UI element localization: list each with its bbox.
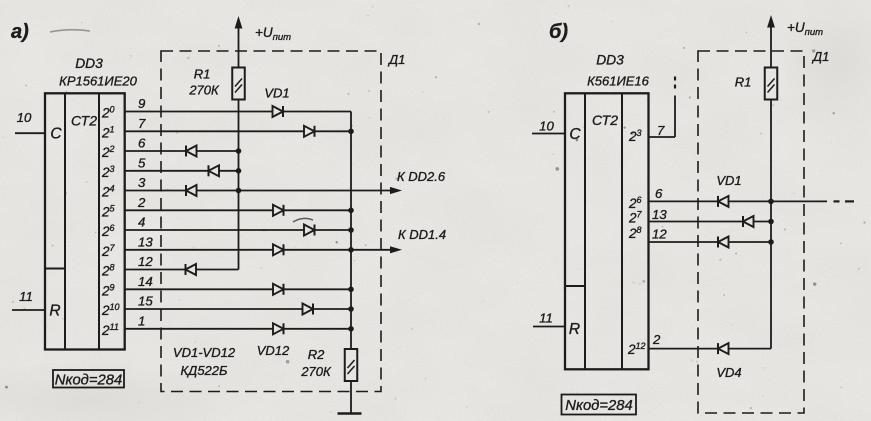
svg-text:R1: R1	[735, 75, 752, 90]
diode VD1 (б)	[718, 196, 729, 207]
pin number 7 (a)	[138, 116, 146, 131]
svg-text:C: C	[569, 126, 581, 143]
smudge near diode VD7	[293, 218, 313, 222]
svg-text:VD1-VD12: VD1-VD12	[173, 345, 236, 360]
diode VD8	[273, 244, 284, 255]
code label Nкод=284 (a)	[53, 370, 124, 389]
wire VD2 to bus (a)	[315, 130, 352, 132]
wire input C pin 10 (a)	[15, 132, 45, 134]
junction bus row pin13 (б)	[768, 219, 774, 225]
svg-text:VD1: VD1	[264, 86, 289, 101]
svg-text:2: 2	[652, 332, 661, 347]
diode VD11	[303, 304, 314, 315]
wire Q0 pin9 to VD1 (a)	[125, 111, 273, 113]
IC DD3 designator (б)	[596, 53, 624, 68]
label Д1 (б)	[811, 49, 829, 64]
label КД522Б	[181, 363, 229, 378]
svg-text:11: 11	[19, 289, 33, 304]
svg-text:б): б)	[549, 21, 568, 43]
junction bus row pin12 (б)	[768, 239, 774, 245]
wire output К DD1.4	[284, 249, 391, 251]
label К DD2.6	[397, 169, 446, 184]
IC DD3 body (a) КР1561ИЕ20 counter	[45, 93, 125, 349]
output label 2^12 (б)	[627, 341, 646, 357]
pin number 13 (a)	[138, 234, 153, 249]
label VD1 (a)	[264, 86, 289, 101]
IC function label СТ2 (a)	[71, 113, 97, 129]
wire Q7 pin13 to VD2 (б)	[649, 221, 744, 223]
output label 2^11 (a)	[101, 322, 119, 338]
svg-text:DD3: DD3	[596, 53, 624, 68]
wire Q3 pin5 to VD4 (a)	[125, 170, 209, 172]
output label 2^0 (a)	[101, 105, 115, 121]
output label 2^1 (a)	[101, 124, 115, 140]
pin number 4 (a)	[138, 215, 145, 230]
wire Q8 pin12 to VD9 (a)	[125, 269, 186, 271]
label R2 (a)	[308, 347, 325, 362]
label a)	[11, 21, 29, 43]
junction bus row pin1 (a)	[348, 326, 354, 332]
pin number 14 (a)	[138, 274, 153, 289]
svg-text:13: 13	[652, 207, 667, 222]
pin number 12 (б)	[652, 227, 667, 242]
ground	[338, 412, 362, 415]
pin number 11 (a)	[19, 289, 33, 304]
wire Q1 pin7 to VD2 (a)	[125, 130, 304, 132]
svg-text:СТ2: СТ2	[592, 112, 618, 128]
diode VD1	[273, 106, 284, 117]
svg-text:14: 14	[138, 274, 153, 289]
wire VD4 to pull-up line (a)	[219, 170, 239, 172]
wire input R pin 11 (б)	[533, 326, 565, 328]
output label 2^4 (a)	[101, 184, 115, 200]
output label 2^5 (a)	[101, 203, 116, 219]
wire VD4 to bus corner (б)	[729, 348, 772, 350]
wire VD6 to bus (a)	[284, 209, 352, 211]
label +Uпит (б)	[787, 20, 823, 38]
wire Q5 pin2 to VD6 (a)	[125, 209, 273, 211]
svg-text:DD3: DD3	[75, 56, 103, 71]
junction bus row pin13 (a)	[348, 247, 354, 253]
pin number 15 (a)	[138, 294, 153, 309]
arrow +Uпит (a)	[235, 16, 243, 29]
arrow К DD1.4	[390, 246, 402, 253]
wire input C pin 10 (б)	[532, 133, 565, 135]
wire Q7 pin13 to VD8 (a)	[125, 249, 273, 251]
wire Q6 pin6 to VD1 (б)	[649, 200, 719, 202]
pin number 6 (б)	[655, 186, 663, 201]
dashed enclosure Д1 (б)	[698, 51, 804, 413]
diode VD6	[273, 205, 284, 216]
label R1 (б)	[735, 75, 752, 90]
svg-text:7: 7	[138, 116, 146, 131]
pin number 11 (б)	[539, 311, 553, 326]
pin R label (б)	[569, 321, 580, 338]
output label 2^3 (б)	[628, 128, 642, 144]
svg-text:4: 4	[138, 215, 145, 230]
arrow +Uпит (б)	[767, 15, 775, 28]
label VD4 (б)	[716, 365, 741, 380]
svg-text:R: R	[49, 303, 60, 320]
pin number 7 (б)	[657, 123, 665, 138]
output label 2^2 (a)	[101, 144, 115, 160]
wire Q10 pin15 to VD11 (a)	[125, 308, 303, 310]
svg-text:3: 3	[138, 175, 146, 190]
svg-text:C: C	[50, 126, 62, 143]
pin number 3 (a)	[138, 175, 146, 190]
svg-text:9: 9	[138, 96, 146, 111]
wire Q12 pin2 to VD4 (б)	[649, 348, 719, 350]
diode VD12	[273, 323, 284, 334]
diode VD3 (б)	[718, 237, 729, 248]
svg-text:СТ2: СТ2	[71, 113, 97, 129]
junction bus row pin4 (a)	[348, 227, 354, 233]
wire Q9 pin14 to VD10 (a)	[125, 288, 273, 290]
wire Q4 pin3 to VD5 (a)	[125, 190, 186, 192]
junction bus row pin2 (a)	[348, 208, 354, 214]
pin C label (б)	[569, 126, 581, 143]
diode VD2 (б)	[743, 216, 754, 227]
diode VD2	[304, 126, 315, 137]
continuation dots above pin7 wire (б)	[674, 77, 676, 89]
wire VD12 to bus (a)	[284, 328, 352, 330]
diode VD3	[186, 146, 197, 157]
svg-text:R1: R1	[194, 67, 211, 82]
wire input R pin 11 (a)	[12, 309, 45, 311]
IC DD3 type К561ИЕ16	[587, 74, 650, 89]
pin number 9 (a)	[138, 96, 146, 111]
junction bus row pin15 (a)	[348, 306, 354, 312]
IC function label СТ2 (б)	[592, 112, 618, 128]
pin number 12 (a)	[138, 254, 153, 269]
junction pull-up row pin6 (a)	[236, 148, 242, 154]
wire R1 to +Uпит (a)	[238, 28, 240, 68]
code label Nкод=284 (б)	[562, 395, 637, 415]
diode VD4	[209, 165, 220, 176]
label Д1 (a)	[387, 52, 405, 67]
wire Q2 pin6 to VD3 (a)	[125, 150, 186, 152]
label К DD1.4	[398, 227, 446, 242]
output label 2^8 (a)	[101, 263, 115, 279]
output label 2^7 (б)	[628, 210, 643, 226]
svg-text:VD12: VD12	[257, 343, 290, 358]
resistor R1 (б)	[765, 68, 778, 100]
IC DD3 type КР1561ИЕ20	[59, 74, 137, 89]
svg-text:2: 2	[137, 195, 146, 210]
pin number 6 (a)	[138, 136, 146, 151]
wire VD11 to bus (a)	[313, 308, 351, 310]
pin R label (a)	[49, 303, 60, 320]
pin number 2 (б)	[652, 332, 661, 347]
svg-text:Д1: Д1	[387, 52, 405, 67]
pin number 13 (б)	[652, 207, 667, 222]
output label 2^8 (б)	[628, 225, 642, 241]
svg-text:12: 12	[138, 254, 153, 269]
output label 2^3 (a)	[101, 164, 115, 180]
svg-text:Nкод=284: Nкод=284	[565, 398, 632, 414]
output label 2^6 (a)	[101, 223, 115, 239]
wire VD3 to bus (б)	[729, 241, 772, 243]
junction bus row pin14 (a)	[348, 287, 354, 293]
pin number 1 (a)	[138, 313, 145, 328]
svg-text:11: 11	[539, 311, 553, 326]
diode VD5	[186, 185, 197, 196]
pin number 10 (б)	[539, 119, 554, 134]
svg-text:R2: R2	[308, 347, 325, 362]
svg-text:270К: 270К	[188, 83, 220, 98]
output label 2^7 (a)	[101, 243, 116, 259]
label VD12 (a)	[257, 343, 290, 358]
junction bus row pin7 (a)	[348, 129, 354, 135]
svg-text:1: 1	[138, 313, 145, 328]
wire VD3 to pull-up line (a)	[197, 150, 239, 152]
pull-up vertical wire from R1 (a)	[238, 100, 240, 270]
svg-text:К DD2.6: К DD2.6	[397, 169, 446, 184]
svg-text:10: 10	[17, 110, 32, 125]
svg-text:КД522Б: КД522Б	[181, 363, 229, 378]
junction pull-up row pin3 (a)	[236, 188, 242, 194]
svg-text:5: 5	[138, 155, 146, 170]
svg-text:7: 7	[657, 123, 665, 138]
wire output К DD2.6	[197, 190, 391, 192]
value 270К R1 (a)	[188, 83, 220, 98]
pin C label (a)	[50, 126, 62, 143]
bus vertical wire from R1 (б)	[770, 99, 772, 349]
diode VD7	[304, 225, 315, 236]
diode VD9	[186, 264, 197, 275]
svg-text:10: 10	[539, 119, 554, 134]
svg-text:6: 6	[138, 136, 146, 151]
wire Q8 pin12 to VD3 (б)	[649, 241, 719, 243]
diode VD4 (б)	[718, 343, 729, 354]
IC DD3 designator (a)	[75, 56, 103, 71]
svg-text:a): a)	[11, 21, 29, 43]
svg-text:6: 6	[655, 186, 663, 201]
value 270К R2 (a)	[300, 364, 332, 379]
label VD1-VD12	[173, 345, 236, 360]
svg-text:12: 12	[652, 227, 667, 242]
junction pull-up row pin5 (a)	[236, 168, 242, 174]
svg-text:R: R	[569, 321, 580, 338]
junction bus row pin6 (б)	[768, 199, 774, 205]
label б)	[549, 21, 568, 43]
wire R2 to ground	[350, 381, 352, 414]
wire Q11 pin1 to VD12 (a)	[125, 328, 273, 330]
svg-text:КР1561ИЕ20: КР1561ИЕ20	[59, 74, 137, 89]
svg-text:270К: 270К	[300, 364, 332, 379]
svg-text:VD4: VD4	[716, 365, 741, 380]
label R1 (a)	[194, 67, 211, 82]
resistor R1 (a) 270К	[232, 68, 245, 100]
wire R1 to +Uпит (б)	[770, 27, 772, 68]
wire VD7 to bus (a)	[315, 229, 352, 231]
smudge streak right of label a)	[50, 30, 90, 32]
label +Uпит (a)	[255, 25, 291, 43]
resistor R2 (a) 270К	[345, 349, 358, 381]
output label 2^10 (a)	[101, 302, 120, 318]
continuation dashes row pin6 (б)	[834, 200, 855, 202]
output label 2^9 (a)	[101, 282, 115, 298]
wire pin7 output (б)	[649, 96, 676, 138]
pin number 10 (a)	[17, 110, 32, 125]
wire VD2 to bus (б)	[754, 221, 772, 223]
svg-text:К DD1.4: К DD1.4	[398, 227, 446, 242]
pin number 5 (a)	[138, 155, 146, 170]
diode VD10	[273, 284, 284, 295]
svg-text:VD1: VD1	[716, 173, 741, 188]
label VD1 (б)	[716, 173, 741, 188]
svg-text:Nкод=284: Nкод=284	[55, 373, 122, 389]
wire Q6 pin4 to VD7 (a)	[125, 229, 304, 231]
output label 2^6 (б)	[628, 195, 642, 211]
svg-text:Д1: Д1	[811, 49, 829, 64]
diode bus vertical wire to R2 (a)	[350, 112, 352, 350]
wire VD10 to bus (a)	[284, 288, 352, 290]
wire VD9 to pull-up corner (a)	[196, 269, 239, 271]
wire VD1 to bus (a)	[283, 111, 351, 113]
dashed enclosure Д1 (a)	[161, 51, 381, 392]
svg-text:13: 13	[138, 234, 153, 249]
svg-text:15: 15	[138, 294, 153, 309]
pin number 2 (a)	[137, 195, 146, 210]
IC DD3 body (б) К561ИЕ16 counter	[565, 93, 649, 369]
wire VD1 to bus and output (б)	[729, 200, 828, 202]
svg-text:К561ИЕ16: К561ИЕ16	[587, 74, 650, 89]
arrow К DD2.6	[390, 187, 402, 194]
